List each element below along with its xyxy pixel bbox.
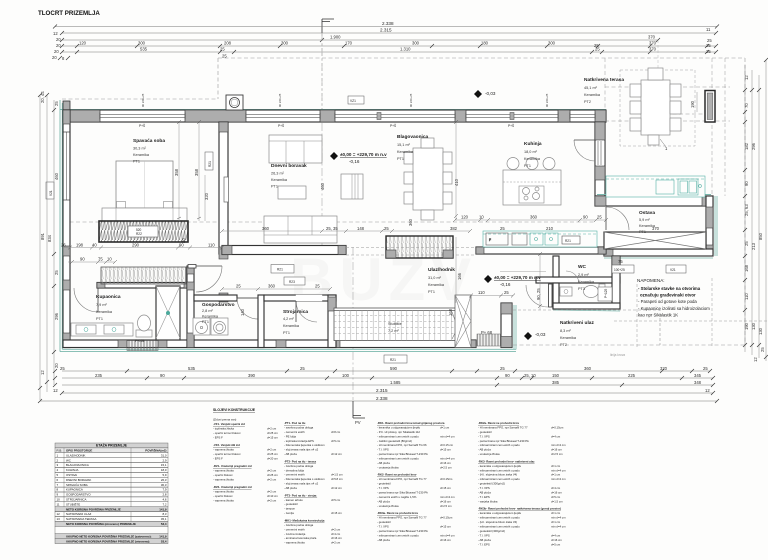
svg-text:45,1 m²: 45,1 m² <box>584 86 598 90</box>
kitchen east wall vertical <box>595 122 605 196</box>
longitudinal dashed line <box>63 221 595 223</box>
svg-text:360: 360 <box>584 366 592 371</box>
svg-text:80: 80 <box>181 238 186 243</box>
svg-text:- AB ploča: - AB ploča <box>377 461 390 465</box>
svg-text:3: 3 <box>57 463 59 467</box>
svg-text:Keramika: Keramika <box>524 157 541 161</box>
svg-text:- AB ploča: - AB ploča <box>284 486 297 490</box>
svg-text:- Parapeti od gotove kote poda: - Parapeti od gotove kote poda <box>638 299 697 304</box>
svg-text:R21: R21 <box>565 239 571 243</box>
interior vertical dims <box>174 168 541 316</box>
svg-text:- mikroarmirani cem.estrih u p: - mikroarmirani cem.estrih u padu <box>478 516 520 520</box>
svg-text:d=2 cm: d=2 cm <box>331 541 341 545</box>
toilet bathroom <box>136 315 152 337</box>
svg-text:Keramika: Keramika <box>96 310 113 314</box>
elevation marker living <box>330 152 387 164</box>
svg-text:d=2 cm: d=2 cm <box>267 499 277 503</box>
svg-text:210: 210 <box>546 226 554 231</box>
bottom exterior wall left part <box>63 340 476 348</box>
svg-text:360: 360 <box>408 218 413 226</box>
svg-text:d=1 cm: d=1 cm <box>551 511 561 515</box>
svg-text:10: 10 <box>479 215 484 220</box>
kitchen door arc <box>574 140 595 161</box>
svg-text:1: 1 <box>57 453 59 457</box>
svg-text:- opečni blokovi: - opečni blokovi <box>213 494 233 498</box>
svg-text:110: 110 <box>208 243 215 248</box>
section mark PV bottom <box>353 401 365 425</box>
svg-text:-PT1- Pod na tlu: -PT1- Pod na tlu <box>284 421 306 425</box>
svg-text:75: 75 <box>98 257 103 262</box>
svg-text:- mikroarmirani cem.estrih u p: - mikroarmirani cem.estrih u padu <box>478 477 520 481</box>
svg-text:d=25 cm: d=25 cm <box>267 431 278 435</box>
svg-text:NETO KORISNA POVRŠINA (otvoren: NETO KORISNA POVRŠINA (otvoreno) PRIZEML… <box>66 521 136 526</box>
svg-text:- vapnena žbuka: - vapnena žbuka <box>213 499 234 503</box>
svg-text:20: 20 <box>52 55 57 60</box>
svg-text:2: 2 <box>57 458 59 462</box>
svg-text:53,4: 53,4 <box>161 522 167 526</box>
svg-text:- kamen arbuto: - kamen arbuto <box>284 498 303 502</box>
svg-text:31,0 m²: 31,0 m² <box>428 276 442 280</box>
WC sink <box>560 287 572 296</box>
svg-text:d=15 cm: d=15 cm <box>440 448 451 452</box>
svg-text:360: 360 <box>268 284 276 289</box>
svg-text:min d=4 cm: min d=4 cm <box>551 477 566 481</box>
shower <box>156 286 180 340</box>
hall wall right part under kitchen <box>476 247 606 254</box>
door leaf wall B <box>224 177 229 202</box>
svg-text:7: 7 <box>57 483 59 487</box>
teal insulation line top exterior <box>60 100 606 352</box>
svg-text:7,2: 7,2 <box>162 502 166 506</box>
svg-text:(Zidovi prema van): (Zidovi prema van) <box>213 418 236 422</box>
svg-text:- HI membrana FPO, npr Sarnafi: - HI membrana FPO, npr Sarnafil TG 77 <box>377 477 427 481</box>
svg-text:120: 120 <box>79 41 87 46</box>
svg-text:TLOCRT PRIZEMLJA: TLOCRT PRIZEMLJA <box>38 10 100 17</box>
svg-text:ETAŽA PRIZEMLJE: ETAŽA PRIZEMLJE <box>96 443 128 448</box>
svg-text:d=16 cm: d=16 cm <box>440 499 451 503</box>
top wall piers <box>63 110 606 122</box>
top exterior wall band <box>63 110 606 122</box>
svg-text:min d=4 cm: min d=4 cm <box>551 525 566 529</box>
svg-text:25: 25 <box>504 290 509 295</box>
svg-text:1.585: 1.585 <box>390 380 401 385</box>
label box R21 hall <box>271 265 294 274</box>
svg-text:- parna brana npr Sika Bitusea: - parna brana npr Sika Bituseal T-230 PA <box>377 491 428 495</box>
WC block walls <box>536 256 620 311</box>
svg-text:KUHINJA: KUHINJA <box>66 468 78 472</box>
svg-text:53,4: 53,4 <box>161 539 167 543</box>
washer dryer gospodarstvo <box>193 318 228 335</box>
svg-text:d=15 cm: d=15 cm <box>267 436 278 440</box>
svg-text:NAPOMENA:: NAPOMENA: <box>637 278 665 283</box>
svg-text:90: 90 <box>583 215 588 220</box>
svg-text:Keramika: Keramika <box>133 153 150 157</box>
left exterior wall <box>63 110 70 348</box>
svg-text:d=20 cm: d=20 cm <box>267 457 278 461</box>
strojarnica east wall <box>328 295 336 348</box>
svg-text:345: 345 <box>694 373 702 378</box>
svg-text:- parna brana npr Sika Bitusea: - parna brana npr Sika Bituseal T-230 PA <box>377 529 428 533</box>
svg-text:-RK2- Ravni ne prohodni krov: -RK2- Ravni ne prohodni krov <box>377 473 417 477</box>
svg-text:- T.I. EPS: - T.I. EPS <box>478 495 490 499</box>
svg-text:891: 891 <box>40 232 45 240</box>
svg-text:25: 25 <box>706 49 711 54</box>
svg-text:PT1: PT1 <box>639 230 646 234</box>
room label Ulaz hodnik <box>428 267 455 294</box>
svg-text:1.310: 1.310 <box>400 47 411 52</box>
svg-text:1: 1 <box>665 146 668 151</box>
svg-text:- zvučna izolacija: - zvučna izolacija <box>284 532 306 536</box>
svg-text:300: 300 <box>548 41 556 46</box>
sofa top living <box>269 135 322 163</box>
svg-text:d=0.15cm: d=0.15cm <box>440 516 453 520</box>
svg-text:d=16 cm: d=16 cm <box>551 491 562 495</box>
svg-text:Keramika: Keramika <box>560 336 577 340</box>
svg-text:148: 148 <box>357 226 365 231</box>
bathroom vanity sinks <box>71 323 133 336</box>
svg-text:18,0: 18,0 <box>161 468 167 472</box>
svg-text:- HI membrana FPO, npr Sarnafi: - HI membrana FPO, npr Sarnafil TG 77 <box>377 516 427 520</box>
svg-text:P+Š: P+Š <box>278 123 284 128</box>
kitchen lower counter teal <box>483 231 597 247</box>
svg-text:PT1: PT1 <box>96 317 103 321</box>
svg-text:R21: R21 <box>208 161 212 167</box>
interior dim row corridor <box>61 243 224 250</box>
svg-text:25: 25 <box>500 226 505 231</box>
svg-text:358: 358 <box>174 168 179 176</box>
svg-text:d=2 cm: d=2 cm <box>267 478 277 482</box>
svg-text:11: 11 <box>706 27 711 32</box>
svg-text:d=2.5 cm: d=2.5 cm <box>551 452 563 456</box>
svg-text:18,0 m²: 18,0 m² <box>524 150 538 154</box>
svg-text:5,9 m²: 5,9 m² <box>639 218 650 222</box>
svg-text:kao npr Sikalastik 1K: kao npr Sikalastik 1K <box>638 313 678 318</box>
svg-text:min d=4 cm: min d=4 cm <box>440 495 455 499</box>
svg-text:d=0.15 cm: d=0.15 cm <box>440 443 454 447</box>
svg-text:- geotekstil (300g/m2): - geotekstil (300g/m2) <box>478 482 505 486</box>
svg-text:296: 296 <box>751 142 756 150</box>
svg-text:75: 75 <box>618 259 623 264</box>
svg-text:130: 130 <box>758 327 763 335</box>
svg-text:150: 150 <box>552 373 560 378</box>
svg-text:PT1: PT1 <box>283 331 290 335</box>
svg-text:30,3: 30,3 <box>161 483 167 487</box>
svg-text:370: 370 <box>652 226 660 231</box>
entry brace <box>455 295 471 348</box>
hall closet hatched <box>386 236 453 258</box>
svg-text:d=8 cm: d=8 cm <box>331 430 341 434</box>
svg-text:min d=4 cm: min d=4 cm <box>440 457 455 461</box>
svg-text:- armirana betonska ploča: - armirana betonska ploča <box>284 536 317 540</box>
gospodarstvo top wall <box>194 295 237 301</box>
interior vertical dim lines <box>179 122 540 310</box>
svg-text:385: 385 <box>552 380 560 385</box>
svg-text:WC: WC <box>578 264 587 270</box>
dim line total 2.315 <box>53 27 718 36</box>
svg-text:26,3: 26,3 <box>161 478 167 482</box>
right dim vertical lines <box>745 60 766 361</box>
coffee table living <box>278 186 306 199</box>
gospodarstvo door arc <box>237 298 258 319</box>
svg-text:- mikroarmirani cem.estrih u p: - mikroarmirani cem.estrih u padu <box>478 443 520 447</box>
svg-text:NATKRIVENI ULAZ: NATKRIVENI ULAZ <box>66 512 92 516</box>
svg-text:min d=4 cm: min d=4 cm <box>551 443 566 447</box>
hall wall horizontal <box>222 246 346 255</box>
svg-text:d=5 cm: d=5 cm <box>551 542 561 546</box>
window kitchen east <box>570 113 595 120</box>
stair strip hallway <box>334 308 470 341</box>
corridor door arc <box>196 266 222 292</box>
dim line 1.900 row <box>56 35 712 44</box>
svg-text:25: 25 <box>760 347 765 352</box>
svg-text:- keramika u odgovarajućem lje: - keramika u odgovarajućem ljepilu <box>478 464 522 468</box>
room label Kuhinja <box>524 141 542 168</box>
svg-text:370: 370 <box>648 35 656 40</box>
svg-text:BLAGOVAONICA: BLAGOVAONICA <box>66 463 89 467</box>
svg-text:- opečni blokovi: - opečni blokovi <box>213 473 233 477</box>
dim row 5 bottom 2.338 <box>38 396 719 403</box>
bathroom door arc <box>74 288 98 312</box>
svg-text:POVRŠINA(m2): POVRŠINA(m2) <box>145 448 166 453</box>
svg-text:d=2.5 cm: d=2.5 cm <box>440 504 452 508</box>
svg-text:- vapnena žbuka: - vapnena žbuka <box>213 490 234 494</box>
svg-text:NATKRIVENA TERASA: NATKRIVENA TERASA <box>66 517 96 521</box>
svg-text:25: 25 <box>236 284 241 289</box>
svg-text:- unutarnja žbuka: - unutarnja žbuka <box>377 466 399 470</box>
svg-text:PT2: PT2 <box>584 100 591 104</box>
svg-text:d=4 cm: d=4 cm <box>551 434 561 438</box>
svg-text:P+Š: P+Š <box>508 123 514 128</box>
svg-text:Blagovaonica: Blagovaonica <box>397 134 429 140</box>
svg-text:Strojarnica: Strojarnica <box>283 309 308 315</box>
label box R21 bottom <box>384 355 407 363</box>
svg-text:213: 213 <box>751 242 756 250</box>
room label Spavaca soba <box>133 138 165 164</box>
window dining <box>335 113 455 120</box>
svg-text:- keramika u odgovarajućem lje: - keramika u odgovarajućem ljepilu <box>377 425 421 429</box>
svg-text:290: 290 <box>132 243 140 248</box>
svg-text:Natkrivena terasa: Natkrivena terasa <box>584 77 624 83</box>
svg-text:-RK3- Ravni prohodni krov- nat: -RK3- Ravni prohodni krov- natkriveni ul… <box>478 459 535 463</box>
svg-text:90, 25: 90, 25 <box>536 288 541 300</box>
svg-text:min d=4 cm: min d=4 cm <box>551 516 566 520</box>
strojarnica top wall <box>264 295 336 301</box>
svg-text:- drenažna folija: - drenažna folija <box>284 468 304 472</box>
terrace privacy bar <box>705 91 715 123</box>
svg-text:- vapnena žbuka: - vapnena žbuka <box>213 469 234 473</box>
svg-text:- T.I. EPS: - T.I. EPS <box>478 542 490 546</box>
svg-text:460: 460 <box>320 182 325 190</box>
svg-text:- PE folija: - PE folija <box>284 434 296 438</box>
entry door arc <box>500 271 579 307</box>
svg-text:Gospodarstvo: Gospodarstvo <box>202 302 235 308</box>
svg-text:VZ1: VZ1 <box>350 99 356 103</box>
svg-text:Ostava: Ostava <box>639 210 655 216</box>
svg-text:- toplinska izolacija EPS: - toplinska izolacija EPS <box>284 439 314 443</box>
svg-text:10: 10 <box>107 257 112 262</box>
svg-text:168: 168 <box>744 264 749 272</box>
svg-text:UKUPNO NETO KORISNA POVRŠINA P: UKUPNO NETO KORISNA POVRŠINA PRIZEMLJE (… <box>66 533 152 538</box>
svg-text:- geotekstil: - geotekstil <box>284 502 298 506</box>
svg-text:SPAVAĆA SOBA: SPAVAĆA SOBA <box>66 482 88 487</box>
svg-text:-PT3- Pod na tlu - strojar.: -PT3- Pod na tlu - strojar. <box>284 493 317 497</box>
label box R21 wall B <box>205 152 213 170</box>
window sill labels <box>141 93 549 107</box>
svg-text:±0,00 = +229,70 m n.v: ±0,00 = +229,70 m n.v <box>494 275 541 280</box>
svg-text:STUBIŠTE: STUBIŠTE <box>66 501 80 506</box>
svg-text:360: 360 <box>262 226 270 231</box>
svg-text:2,8: 2,8 <box>162 493 166 497</box>
svg-text:- završna podna obloga: - završna podna obloga <box>284 523 314 527</box>
svg-text:460: 460 <box>54 172 59 180</box>
svg-text:d=2 cm: d=2 cm <box>331 527 341 531</box>
svg-text:360: 360 <box>530 215 538 220</box>
svg-text:DNEVNI BORAVAK: DNEVNI BORAVAK <box>66 478 91 482</box>
svg-text:235: 235 <box>95 373 103 378</box>
svg-text:d=5 cm: d=5 cm <box>331 439 341 443</box>
svg-text:d=25 cm: d=25 cm <box>267 473 278 477</box>
room label WC <box>578 264 595 291</box>
room label Natkriveni ulaz <box>560 320 594 347</box>
svg-text:R.B.: R.B. <box>57 449 63 453</box>
bed mattress <box>116 161 173 208</box>
svg-text:- geotekstil: - geotekstil <box>478 430 492 434</box>
svg-text:141,9: 141,9 <box>159 507 167 511</box>
svg-text:5: 5 <box>57 473 59 477</box>
svg-text:90 220+25: 90 220+25 <box>278 93 282 107</box>
svg-text:12: 12 <box>40 370 45 375</box>
svg-text:8,3: 8,3 <box>162 512 166 516</box>
svg-text:-RK3a- Ravni ne prohodni krov: -RK3a- Ravni ne prohodni krov <box>377 511 418 515</box>
svg-text:- EPS F: - EPS F <box>213 436 223 440</box>
right dim numbers rotated <box>744 75 765 362</box>
svg-text:25, 35: 25, 35 <box>326 226 338 231</box>
svg-text:d=1.5 cm: d=1.5 cm <box>331 473 343 477</box>
svg-text:-0,16: -0,16 <box>349 159 360 164</box>
interior wall living/bedroom <box>219 122 228 302</box>
svg-text:15,1 m²: 15,1 m² <box>397 143 411 147</box>
bathroom top wall <box>97 283 192 289</box>
svg-text:d=2 cm: d=2 cm <box>267 469 277 473</box>
svg-text:130: 130 <box>751 322 756 330</box>
svg-text:V21: V21 <box>49 190 53 196</box>
svg-text:225: 225 <box>628 373 636 378</box>
svg-text:25: 25 <box>54 101 59 106</box>
svg-text:1.900: 1.900 <box>330 35 341 40</box>
left dim vertical lines <box>40 95 54 400</box>
dim row 1 bottom <box>53 366 712 373</box>
svg-text:STROJARNICA: STROJARNICA <box>66 498 86 502</box>
svg-text:d=1 cm: d=1 cm <box>551 520 561 524</box>
terrace dashed lines <box>605 58 730 196</box>
svg-text:25: 25 <box>384 226 389 231</box>
svg-text:300: 300 <box>281 41 289 46</box>
svg-text:6: 6 <box>57 478 59 482</box>
ostava top wall <box>595 195 713 207</box>
dining table <box>404 138 452 220</box>
svg-text:- vapnena žbuka: - vapnena žbuka <box>284 541 305 545</box>
svg-text:d=2 cm: d=2 cm <box>267 448 277 452</box>
svg-text:70: 70 <box>744 103 749 108</box>
right exterior wall <box>706 196 717 256</box>
svg-text:PT3: PT3 <box>578 287 585 291</box>
svg-text:11: 11 <box>57 502 60 506</box>
svg-text:R23: R23 <box>289 280 295 284</box>
svg-text:- AB ploča: - AB ploča <box>478 448 491 452</box>
svg-text:- vapnena žbuka: - vapnena žbuka <box>213 448 234 452</box>
svg-text:168: 168 <box>448 308 453 316</box>
svg-text:9: 9 <box>57 493 59 497</box>
svg-text:25: 25 <box>315 284 320 289</box>
svg-text:8: 8 <box>57 488 59 492</box>
svg-text:d=25 cm: d=25 cm <box>267 452 278 456</box>
svg-text:R22: R22 <box>136 232 142 236</box>
svg-text:d=1 cm: d=1 cm <box>551 464 561 468</box>
svg-text:linija krova: linija krova <box>610 353 625 357</box>
svg-text:Spavaća soba: Spavaća soba <box>133 138 165 144</box>
dim row 2 bottom <box>53 373 715 380</box>
svg-text:296: 296 <box>54 312 59 320</box>
svg-text:OPIS PROSTORIJE: OPIS PROSTORIJE <box>66 449 92 453</box>
svg-text:25: 25 <box>744 241 749 246</box>
vertical grid dashes from top dims <box>322 33 658 110</box>
svg-text:Keramika: Keramika <box>283 324 300 328</box>
dim line total 2.338 <box>53 21 719 29</box>
svg-text:- tampon: - tampon <box>284 507 295 511</box>
svg-text:390: 390 <box>248 373 256 378</box>
dim 190 terrace bar <box>690 92 697 112</box>
svg-text:25: 25 <box>54 270 59 275</box>
svg-text:d=16 cm: d=16 cm <box>331 536 342 540</box>
svg-text:20: 20 <box>54 49 59 54</box>
svg-text:d=15 cm: d=15 cm <box>331 511 342 515</box>
svg-text:d=16 cm: d=16 cm <box>440 461 451 465</box>
svg-text:2,8 m²: 2,8 m² <box>202 309 213 313</box>
svg-text:d=2 cm: d=2 cm <box>267 490 277 494</box>
svg-text:±0,00 = +229,70 m n.v: ±0,00 = +229,70 m n.v <box>340 152 387 157</box>
svg-text:- T.I. XPS: - T.I. XPS <box>377 448 389 452</box>
fireplace unit <box>341 174 363 199</box>
svg-text:PT1: PT1 <box>524 164 531 168</box>
svg-text:100: 100 <box>342 373 350 378</box>
svg-text:d=12 cm: d=12 cm <box>331 452 342 456</box>
dim row 4 bottom 2.315 <box>53 388 715 395</box>
svg-text:-RK3b- Ravni prohodni krov- na: -RK3b- Ravni prohodni krov- natkrivena t… <box>478 507 561 511</box>
kitchen interior dim row <box>453 215 608 223</box>
svg-text:-RZ1- Unutarnji pregradni zid: -RZ1- Unutarnji pregradni zid <box>213 464 252 468</box>
svg-text:- bitumenska ljepenka s uloško: - bitumenska ljepenka s uloškom <box>284 443 325 447</box>
svg-text:- cementni estrih: - cementni estrih <box>284 430 305 434</box>
svg-text:370: 370 <box>649 41 657 46</box>
svg-text:26,3 m²: 26,3 m² <box>271 172 285 176</box>
svg-text:d=16 cm: d=16 cm <box>551 538 562 542</box>
svg-text:- AB ploča: - AB ploča <box>377 538 390 542</box>
elevation marker terrace <box>474 90 496 98</box>
svg-text:170: 170 <box>345 41 353 46</box>
gospodarstvo east wall <box>258 295 264 348</box>
svg-text:25, 63: 25, 63 <box>744 204 749 216</box>
svg-text:40: 40 <box>92 243 97 248</box>
svg-text:d=16 cm: d=16 cm <box>440 538 451 542</box>
svg-text:320: 320 <box>660 366 668 371</box>
svg-text:d=15 cm: d=15 cm <box>440 525 451 529</box>
svg-text:20, 44: 20, 44 <box>40 91 45 103</box>
svg-text:- geotekstil (300g/m2): - geotekstil (300g/m2) <box>478 529 505 533</box>
svg-text:348: 348 <box>694 380 702 385</box>
svg-text:Kupaonica: Kupaonica <box>96 294 121 300</box>
label box R23 <box>284 277 305 285</box>
room label Ostava <box>639 210 656 234</box>
